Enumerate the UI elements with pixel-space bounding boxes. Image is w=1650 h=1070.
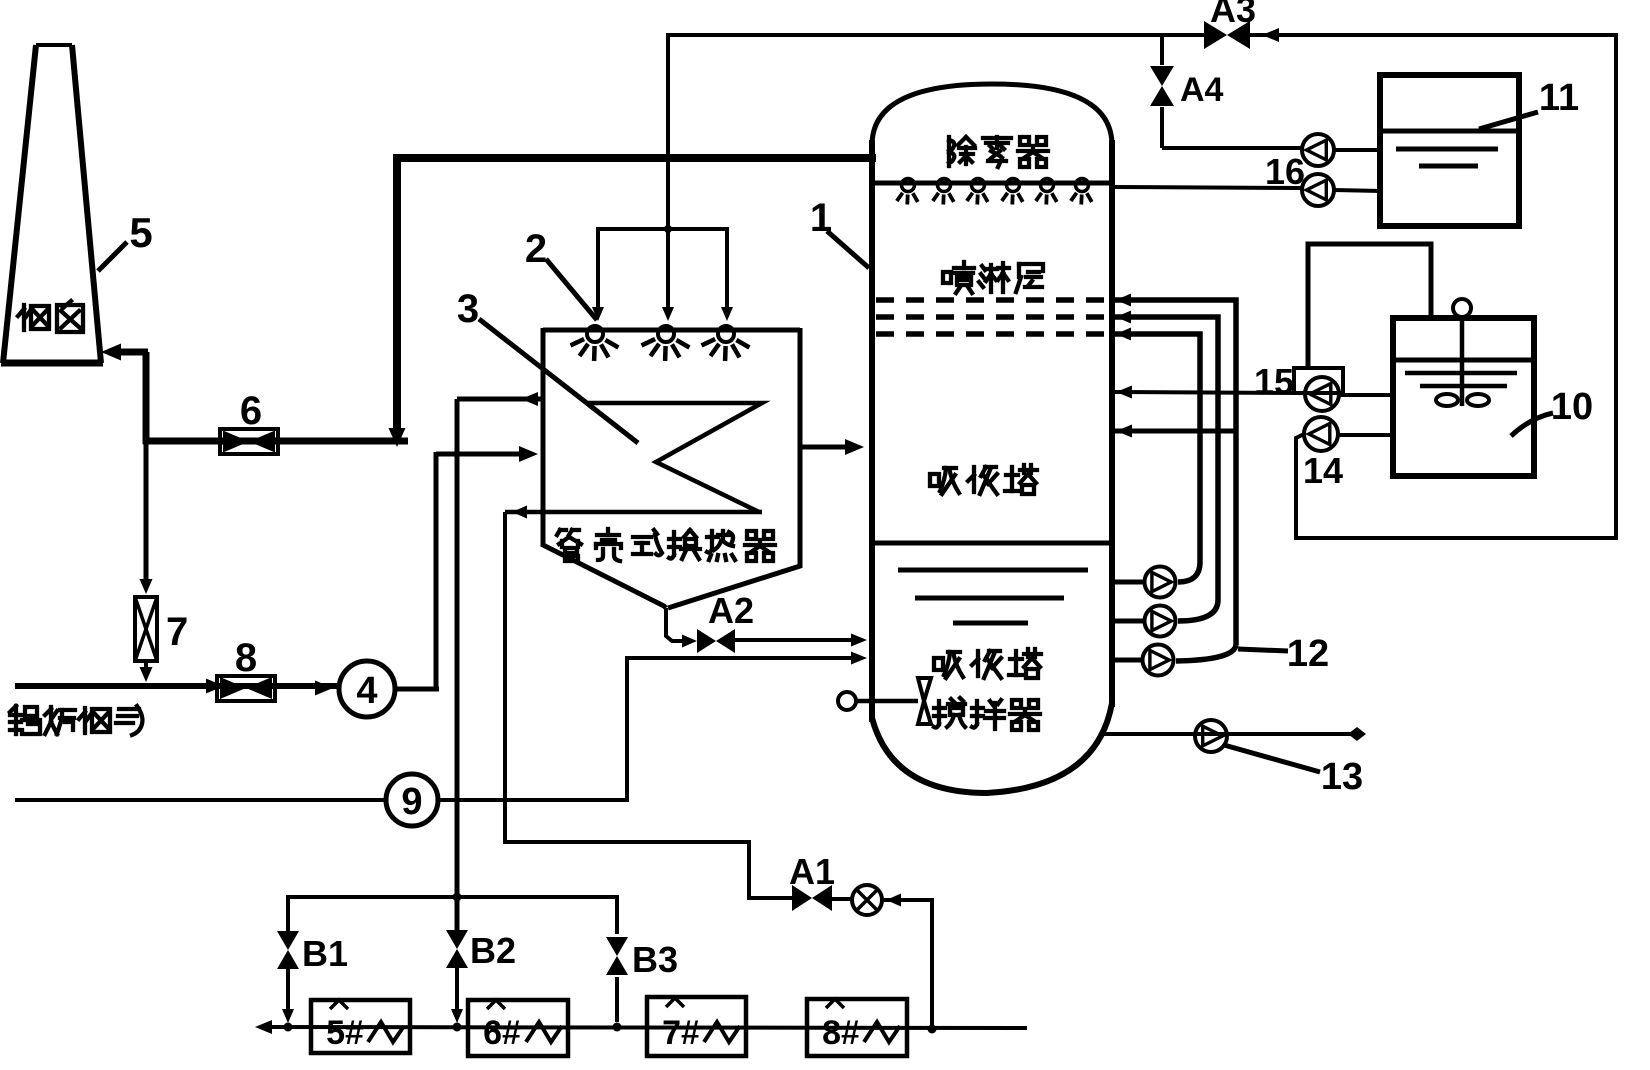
HX coil xyxy=(587,403,762,512)
wire valve6 line xyxy=(143,438,408,445)
HX bottom outlet line xyxy=(505,510,762,515)
svg-text:A4: A4 xyxy=(1180,71,1224,109)
valve B3 xyxy=(606,937,628,956)
slurry level lines xyxy=(898,568,1088,573)
pump A1 xyxy=(852,885,882,915)
svg-text:8: 8 xyxy=(235,636,257,680)
label 吸收塔 xyxy=(930,468,959,494)
tank 10 xyxy=(1393,318,1534,476)
wire A1 to heater line xyxy=(832,897,852,901)
thick clean-gas drop x=397 xyxy=(393,155,401,432)
svg-text:7: 7 xyxy=(166,610,188,654)
svg-text:8#: 8# xyxy=(822,1014,860,1052)
svg-text:A3: A3 xyxy=(1210,0,1256,30)
svg-text:5: 5 xyxy=(129,209,152,256)
spray feed manifold xyxy=(598,227,727,231)
circulation pumps 12 xyxy=(1112,580,1145,585)
svg-text:10: 10 xyxy=(1551,386,1593,428)
wire down to damper 7 xyxy=(144,441,149,582)
wire pump15 right to tank10 xyxy=(1339,393,1394,397)
pump 13 discharge line xyxy=(1104,732,1352,736)
tank 11 xyxy=(1380,75,1519,226)
heater 6# xyxy=(468,1000,568,1056)
svg-text:A1: A1 xyxy=(789,851,835,892)
label 管壳式换热器 xyxy=(557,530,581,561)
heater bypass manifold xyxy=(288,897,617,934)
fan 4 xyxy=(339,661,395,717)
wire right edge down xyxy=(1614,33,1618,540)
heater 7# xyxy=(647,997,746,1056)
slurry tray xyxy=(872,541,1112,546)
valve B1 xyxy=(277,931,299,950)
demister nozzles 除雾器 xyxy=(902,179,915,192)
label 烟囱 xyxy=(18,305,49,330)
valve A2 line from HX funnel xyxy=(666,608,688,641)
heat exchanger 3 (管壳式换热器) xyxy=(543,328,800,333)
svg-text:5#: 5# xyxy=(326,1014,364,1052)
valve A1 xyxy=(792,885,812,911)
wire demister outlet xyxy=(1114,187,1302,188)
wire fan outlet xyxy=(395,687,439,692)
svg-text:2: 2 xyxy=(525,227,547,271)
HX outlet to chimney loop xyxy=(521,392,538,406)
label 喷淋层 xyxy=(943,262,974,293)
svg-text:6#: 6# xyxy=(483,1014,521,1052)
wire pump14 right xyxy=(1338,433,1394,437)
wire return line y431 xyxy=(1112,429,1236,434)
pump 13 xyxy=(1195,720,1227,752)
demister line xyxy=(872,181,1112,186)
wire to valve A1 xyxy=(505,842,795,898)
pump 16 upper xyxy=(1302,134,1334,166)
svg-text:B1: B1 xyxy=(302,933,348,974)
svg-text:3: 3 xyxy=(457,287,479,331)
valve A4 branch xyxy=(1160,35,1164,65)
svg-text:12: 12 xyxy=(1287,633,1329,675)
valve 8 xyxy=(217,676,275,701)
svg-text:14: 14 xyxy=(1303,450,1343,491)
pump 16 lower xyxy=(1302,174,1334,206)
HX spray nozzles 2 xyxy=(587,326,603,342)
label 13 with leader xyxy=(1224,745,1320,772)
label 搅拌器 xyxy=(934,698,965,728)
valve B2 xyxy=(446,930,468,949)
HX outlet to tower xyxy=(800,445,854,450)
label 12 with leader xyxy=(1238,649,1288,651)
svg-text:B3: B3 xyxy=(632,939,678,980)
svg-text:4: 4 xyxy=(356,670,377,712)
label 锅炉烟气 xyxy=(10,706,40,734)
wire bottom of loop xyxy=(1298,536,1618,540)
label 除雾器 xyxy=(949,137,975,166)
tank 10 agitator xyxy=(1453,299,1471,317)
absorber tower 1 shell xyxy=(872,84,1112,145)
wire spray row 2 to pump B xyxy=(1112,317,1218,600)
svg-text:15: 15 xyxy=(1254,361,1294,402)
svg-text:9: 9 xyxy=(401,781,422,823)
spray layers (dashed) xyxy=(876,297,1108,303)
svg-text:16: 16 xyxy=(1265,151,1305,192)
flue gas line 锅炉烟气 xyxy=(15,683,341,689)
valve A3 xyxy=(1204,21,1227,49)
chimney 5 (烟囱) xyxy=(36,43,72,47)
damper 7 xyxy=(135,597,157,661)
wire 9 riser to tower xyxy=(625,656,629,802)
svg-text:13: 13 xyxy=(1321,756,1363,798)
pump 14 xyxy=(1304,417,1338,451)
wire A2 to tower xyxy=(735,638,858,642)
valve A2 xyxy=(682,635,697,648)
valve A4 xyxy=(1150,66,1174,86)
svg-text:B2: B2 xyxy=(470,930,516,971)
pump 15 housing xyxy=(1294,368,1343,393)
wire chimney riser xyxy=(117,349,148,356)
instrument 9 xyxy=(386,774,438,826)
svg-text:7#: 7# xyxy=(662,1014,700,1052)
wire top line xyxy=(668,33,1205,37)
pump 15 xyxy=(1305,377,1339,411)
wire pump15 feed arrow xyxy=(1116,386,1132,399)
agitator 吸收塔搅拌器 xyxy=(838,692,856,710)
heater 8# xyxy=(807,999,907,1056)
wire pump15 left to tower xyxy=(1114,392,1305,393)
gas reheat line xyxy=(262,1027,1027,1028)
wire spray row 3 to pump A xyxy=(1112,334,1200,562)
wire pump14 drain xyxy=(1296,434,1304,540)
label 吸收塔 (lower) xyxy=(934,652,963,678)
svg-text:11: 11 xyxy=(1539,77,1579,119)
heater 5# xyxy=(311,1000,410,1053)
wire spray row 1 to pump C xyxy=(1112,300,1236,645)
wire line 9 xyxy=(15,798,627,802)
valve 6 xyxy=(220,429,278,454)
wire tank 10 feed loop xyxy=(1308,244,1431,368)
svg-text:6: 6 xyxy=(240,389,262,433)
thick gas line to tower top xyxy=(393,154,876,162)
svg-text:A2: A2 xyxy=(708,590,754,631)
arrow into chimney xyxy=(101,344,121,361)
